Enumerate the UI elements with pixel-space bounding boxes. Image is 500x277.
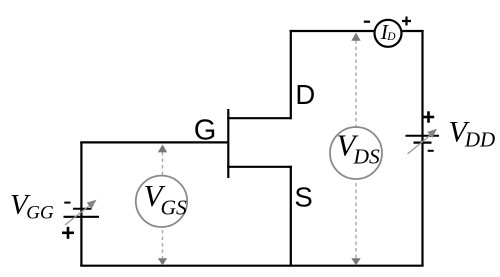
svg-text:S: S <box>294 181 312 212</box>
svg-text:D: D <box>295 79 315 110</box>
VDD variable source arrow <box>408 134 433 154</box>
battery VGG short plate <box>73 208 92 210</box>
svg-text:G: G <box>194 114 217 146</box>
wire left vertical <box>80 141 82 265</box>
minus sign VGG <box>64 202 70 204</box>
plus sign top (ID) <box>402 20 411 22</box>
minus sign top (ID) <box>364 21 370 23</box>
wire source vertical <box>290 166 292 266</box>
battery VDD short plate <box>414 142 432 144</box>
transistor gate bar <box>227 109 229 178</box>
VDS dashed measurement line <box>355 40 357 258</box>
wire top right segment <box>402 30 424 32</box>
VGS arrowhead down <box>158 258 167 265</box>
voltmeter VDS circle <box>330 127 382 179</box>
VDS arrowhead up <box>351 33 360 41</box>
wire gate horizontal <box>80 141 229 143</box>
VGS dashed measurement line <box>162 152 164 258</box>
battery VGG long plate <box>64 216 100 218</box>
VDS arrowhead down <box>351 258 360 265</box>
wire right vertical <box>421 30 423 266</box>
plus sign VDD <box>423 116 434 119</box>
minus sign VDD <box>428 150 434 152</box>
VGG variable source arrow <box>65 204 92 226</box>
voltmeter VGS circle <box>136 176 187 227</box>
wire drain horizontal <box>227 117 291 119</box>
wire bottom horizontal <box>80 265 423 267</box>
wire top left segment <box>290 30 375 32</box>
wire source horizontal <box>227 166 292 168</box>
plus sign VGG <box>62 232 74 235</box>
battery VDD long plate <box>406 135 440 137</box>
wire drain vertical <box>290 30 292 119</box>
ammeter ID circle <box>375 20 402 47</box>
VGS arrowhead up <box>158 144 167 152</box>
